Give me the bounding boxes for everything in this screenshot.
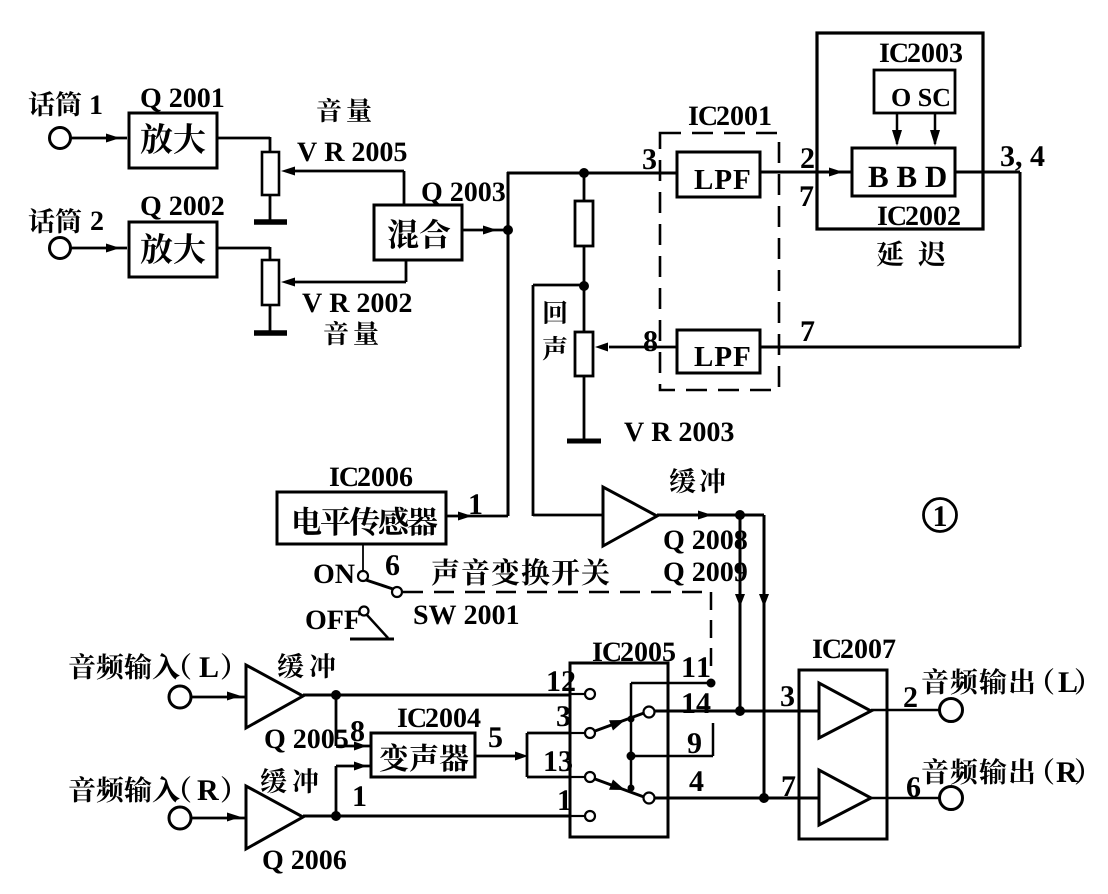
label IC2007: [813, 639, 840, 658]
label ON: [314, 564, 354, 583]
input jack R: [169, 807, 191, 829]
label IC2003: [880, 43, 907, 62]
buffer Q2005 triangle: [246, 665, 303, 728]
node mixer-out junction: [503, 225, 513, 235]
pin 9 lead: [631, 755, 713, 758]
label pin 6: [907, 777, 920, 797]
IC2001 dashed box: [660, 133, 779, 390]
label Q2008: [664, 530, 746, 553]
pin 1 contact: [570, 815, 584, 817]
label 音频输入 L: [69, 653, 179, 680]
label pin 8 changer: [351, 721, 364, 741]
wire amp1 out: [217, 137, 270, 140]
label pin 1 in: [559, 790, 570, 810]
label pin 3 in: [557, 706, 570, 726]
wire L to changer: [335, 695, 338, 746]
label pin 5: [489, 727, 502, 747]
label 缓冲 Q2005: [278, 653, 335, 678]
node echo junction: [579, 281, 589, 291]
label 音频输出 L: [922, 668, 1034, 695]
wire R to changer: [335, 766, 338, 816]
IC2002 outer box: [817, 33, 983, 229]
mic jack J1: [50, 128, 71, 149]
input jack L: [169, 686, 191, 708]
node pin11 junction: [707, 679, 716, 688]
label IC2002: [878, 206, 905, 225]
wire pin 6 down: [362, 544, 364, 570]
resistor VR2005: [262, 152, 279, 195]
oscillator OSC box: [874, 70, 955, 113]
amplifier Q2002 box 放大: [129, 222, 217, 277]
level sensor box 电平传感器: [277, 492, 446, 544]
label 延迟: [877, 240, 945, 266]
label pin 3 IC2007: [781, 686, 794, 706]
switch pole contact: [392, 587, 402, 597]
wire R to pin1: [303, 815, 570, 818]
wire L to pin12: [303, 694, 570, 697]
pin 12 contact: [570, 693, 584, 695]
label pin 14: [683, 693, 710, 713]
wire VR2002 to gnd: [269, 305, 272, 333]
pin 13 contact: [570, 776, 584, 778]
amp L triangle: [819, 683, 871, 738]
label mic 1 话筒 1: [29, 91, 81, 116]
label OFF: [306, 610, 359, 629]
wire out R: [871, 797, 940, 800]
label pin 1: [470, 494, 481, 514]
label VR2003: [624, 422, 733, 441]
wire mixer out: [462, 229, 506, 232]
label 缓冲 Q2006: [261, 768, 318, 793]
LPF1 box: [677, 152, 760, 197]
mic jack J2: [50, 238, 71, 259]
wire inL to buffer: [191, 696, 246, 699]
pin 3 contact: [570, 732, 584, 734]
label pin 12: [548, 671, 574, 691]
label pin 7 IC2007: [783, 776, 796, 796]
wire wiper to LPF2: [609, 346, 677, 349]
wire amp2 out: [217, 247, 270, 250]
label pin 2: [904, 687, 916, 707]
label pin 7 upper: [801, 186, 814, 206]
node bus top junction: [579, 168, 589, 178]
label Q2002: [141, 196, 223, 219]
voice changer box 变声器: [371, 733, 475, 777]
label Q2009: [664, 562, 746, 585]
IC2005 box: [570, 663, 668, 837]
wire mic1 to amp: [71, 137, 127, 140]
label pins 3,4: [1001, 146, 1044, 171]
label Q2006: [263, 850, 346, 873]
label Q2005: [265, 729, 347, 752]
wire OSC to BBD right: [934, 113, 937, 144]
switch wiper lower: [595, 779, 644, 797]
pot VR2002 wiper wire: [281, 278, 295, 287]
node L junction: [331, 690, 341, 700]
switch wiper upper: [595, 713, 644, 731]
wire buffer out: [657, 514, 764, 517]
wire BBD out loop: [955, 171, 1020, 174]
wire inR to buffer: [191, 817, 246, 820]
wire pin4 to IC2007: [654, 797, 819, 800]
control bracket: [631, 682, 713, 685]
node control junction: [627, 752, 636, 761]
node drop B junction: [759, 793, 769, 803]
label VR2002 音量: [302, 293, 411, 312]
OFF contact: [360, 607, 369, 616]
pot VR2003: [583, 286, 586, 332]
label 回声: [545, 301, 567, 324]
resistor VR2002: [262, 260, 279, 305]
ground G3: [567, 439, 601, 444]
amplifier Q2001 box 放大: [129, 113, 217, 168]
wire LPF1 to BBD: [760, 171, 852, 174]
label pin 13: [545, 751, 572, 771]
label pin 2: [801, 148, 813, 168]
wire drop B: [763, 515, 766, 798]
ground G1: [254, 219, 287, 225]
wire sensor to bus: [446, 515, 508, 518]
wire VR2003 to gnd: [583, 376, 586, 441]
label pin 7 lower: [802, 321, 815, 341]
label mic 2 话筒 2: [29, 208, 81, 233]
amp R triangle: [819, 770, 871, 825]
wire main bus vertical: [507, 172, 510, 516]
wire VR2005 to gnd: [269, 195, 272, 222]
switch SW2001 ON contact: [358, 571, 368, 581]
mixer box 混合: [374, 205, 462, 260]
label pin 1 changer: [354, 786, 365, 806]
BBD box: [852, 148, 955, 196]
switch arm: [366, 580, 393, 589]
label IC2001: [689, 106, 716, 125]
IC2007 box: [799, 670, 887, 839]
pot VR2005 wiper wire: [281, 167, 295, 176]
label 音频输入 R: [69, 776, 179, 803]
wire out L: [871, 709, 940, 712]
label IC2005: [593, 642, 620, 661]
node R junction: [331, 811, 341, 821]
label pin 9: [688, 733, 701, 753]
label 音频输出 R: [922, 758, 1034, 785]
label pin 8: [644, 331, 657, 351]
label 音量 VR2005: [317, 98, 371, 122]
label SW2001: [414, 605, 518, 624]
label IC2006: [330, 467, 357, 486]
wire pin14 to IC2007: [654, 710, 819, 713]
label pin 4: [689, 771, 703, 791]
label pin 3: [643, 149, 656, 169]
wire changer out: [475, 755, 524, 758]
output jack R: [940, 787, 963, 810]
node buffer out junction: [735, 510, 745, 520]
wire drop A: [739, 515, 742, 711]
wire echo to buffer: [533, 284, 584, 287]
buffer Q2006 triangle: [246, 786, 303, 849]
wire mic2 to amp: [71, 247, 127, 250]
control dashed wire: [403, 591, 711, 594]
output jack L: [940, 699, 963, 722]
label IC2004: [398, 708, 425, 727]
label Q2001: [141, 88, 223, 111]
LPF2 box: [677, 330, 760, 373]
wire OSC to BBD left: [896, 113, 899, 144]
label 声音变换开关: [432, 558, 609, 586]
label Q2003: [422, 182, 504, 205]
wire main bus horizontal: [507, 172, 678, 175]
label 缓冲 Q2008: [670, 468, 725, 493]
node drop A junction: [735, 706, 745, 716]
label 6: [386, 555, 399, 575]
label pin 11: [683, 657, 709, 677]
resistor R echo feed: [583, 173, 586, 201]
figure number 1 circled: [924, 499, 957, 532]
ground G2: [254, 330, 287, 336]
buffer Q2008 triangle: [603, 487, 657, 546]
